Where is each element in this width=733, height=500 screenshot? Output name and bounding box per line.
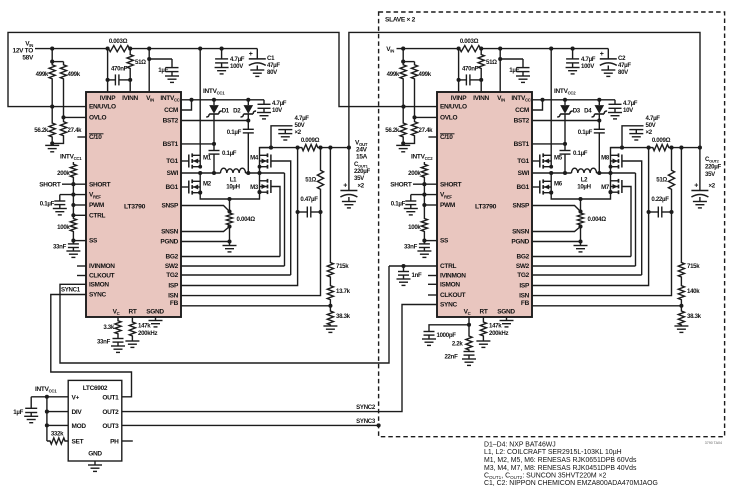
ground 1uF (171, 72, 173, 76)
wire ISN (181, 212, 321, 296)
junction (647, 146, 651, 150)
svg-text:470nF: 470nF (111, 66, 128, 73)
ground divider (45, 144, 59, 146)
wire PGND (532, 241, 581, 243)
ground 1uF (522, 72, 524, 76)
wire BG2 (532, 256, 631, 258)
transistor M7 bottom right (618, 179, 620, 183)
svg-text:LT3790: LT3790 (475, 204, 497, 211)
capacitor COUT1 220uF (348, 148, 350, 191)
svg-text:1µF: 1µF (158, 67, 168, 74)
wire M2 source to sense (200, 193, 229, 200)
junction (347, 146, 351, 150)
wire M4 drain (260, 148, 272, 156)
wire SWI (532, 172, 572, 174)
svg-text:35V: 35V (705, 171, 716, 178)
svg-text:CLKOUT: CLKOUT (440, 292, 466, 299)
svg-text:M8: M8 (601, 155, 610, 162)
svg-text:38.3k: 38.3k (687, 313, 702, 320)
wire ISMON to slave CTRL (60, 266, 389, 363)
svg-text:SS: SS (440, 238, 449, 245)
svg-text:ISP: ISP (519, 283, 530, 290)
svg-text:51Ω: 51Ω (486, 59, 497, 66)
wire M3 source to sense (581, 192, 611, 199)
svg-text:47µF: 47µF (618, 62, 631, 69)
ground 4.7uF 50V (284, 130, 286, 134)
svg-text:×2: ×2 (646, 129, 653, 136)
resistor 200k (70, 162, 76, 184)
capacitor 1nF CTRL (403, 266, 405, 272)
wire BST2 (532, 120, 599, 122)
wire SYNC3 net (122, 424, 379, 426)
svg-text:OUT3: OUT3 (102, 423, 119, 430)
svg-text:D4: D4 (584, 108, 592, 115)
wire SW2 to pin (284, 173, 286, 266)
svg-text:C1: C1 (267, 55, 275, 62)
wire SW2 node (597, 172, 636, 174)
wire CCM tie (532, 100, 543, 110)
svg-text:0.1µF: 0.1µF (391, 201, 406, 208)
slave x2 dashed boundary box (379, 12, 725, 437)
diode D3 (563, 98, 567, 102)
svg-text:220µF: 220µF (705, 164, 721, 171)
svg-text:58V: 58V (22, 55, 34, 62)
capacitor 1uF (500, 58, 523, 60)
svg-text:4.7µF: 4.7µF (646, 115, 661, 122)
svg-text:0.1µF: 0.1µF (222, 150, 237, 157)
wire M1 drain from VIN (550, 49, 552, 156)
svg-text:SHORT: SHORT (390, 182, 412, 189)
svg-text:0.003Ω: 0.003Ω (460, 38, 479, 45)
svg-text:MOD: MOD (72, 423, 87, 430)
wire D1 cathode to BST1 (564, 117, 566, 151)
wire M4 source (259, 167, 261, 174)
transistor M2 bottom left (191, 179, 193, 183)
svg-text:SYNC: SYNC (440, 302, 457, 309)
capacitor 1uF LTC (30, 397, 32, 409)
svg-text:3790 TA04: 3790 TA04 (705, 441, 722, 445)
svg-text:ISN: ISN (168, 293, 179, 300)
junction (198, 47, 202, 51)
svg-text:+: + (600, 51, 604, 58)
wire M4 drain (611, 148, 623, 156)
resistor 13.7k (327, 278, 333, 302)
wire VC (117, 317, 119, 320)
junction (318, 146, 322, 150)
capacitor COUT2 220uF (699, 148, 701, 191)
junction (479, 47, 483, 51)
svg-text:220µF: 220µF (354, 168, 370, 175)
svg-text:SW2: SW2 (516, 263, 530, 270)
wire ISN (532, 212, 672, 296)
svg-text:BG2: BG2 (166, 254, 179, 261)
wire VREF (411, 194, 437, 196)
svg-text:M4: M4 (250, 155, 259, 162)
svg-text:56.2k: 56.2k (34, 127, 49, 134)
svg-text:FB: FB (521, 300, 530, 307)
wire EN/UVLO master loop to slave (8, 32, 437, 106)
wire VIN rail right (137, 48, 257, 50)
svg-text:SET: SET (72, 439, 84, 446)
capacitor 0.1uF VREF (410, 195, 412, 201)
node sense top (578, 197, 582, 201)
junction (679, 146, 683, 150)
wire BG1 gate (532, 186, 539, 188)
svg-text:M5: M5 (554, 155, 563, 162)
svg-text:D1: D1 (222, 108, 230, 115)
capacitor 0.1uF BST1 (209, 150, 220, 152)
wire BG1 gate (181, 186, 188, 188)
wire M4 gate to TG2 (622, 161, 641, 275)
junction (549, 47, 553, 51)
op-amp U3 LTC6902 oscillator (68, 380, 122, 461)
svg-text:47µF: 47µF (267, 62, 280, 69)
ground COUT1 (348, 197, 350, 202)
svg-text:1000pF: 1000pF (437, 332, 457, 339)
resistor 56.2k (49, 107, 55, 144)
svg-text:SYNC: SYNC (89, 292, 106, 299)
svg-text:4.7µF: 4.7µF (230, 56, 245, 63)
svg-text:51Ω: 51Ω (656, 177, 667, 184)
ground 33nF (423, 248, 425, 252)
svg-text:51Ω: 51Ω (305, 177, 316, 184)
resistor 51ohm input (127, 49, 133, 80)
capacitor 4.7uF 50V x2 (622, 126, 644, 148)
svg-text:BST2: BST2 (163, 118, 179, 125)
pin stubs IVINMON ISMON CLKOUT (428, 275, 437, 277)
svg-text:CCM: CCM (515, 107, 529, 114)
resistor 38.3k (678, 310, 684, 326)
svg-text:38.3k: 38.3k (336, 313, 351, 320)
junction (669, 146, 673, 150)
resistor 332k (47, 438, 68, 444)
resistor 499k (2) (411, 62, 417, 118)
svg-text:0.1µF: 0.1µF (573, 150, 588, 157)
ground VC (117, 342, 119, 346)
wire SWI (181, 172, 221, 174)
wire TG2 (532, 274, 642, 276)
transistor M4 top right (267, 153, 269, 157)
wire FB (181, 305, 330, 307)
svg-text:50V: 50V (295, 122, 306, 129)
wire VIN rail (35, 48, 101, 50)
junction EN/UVLO slave divider (401, 105, 405, 109)
wire PGND (181, 241, 230, 243)
capacitor 0.1uF BST2 (243, 128, 254, 130)
wire M3 drain (610, 173, 612, 181)
svg-text:33nF: 33nF (97, 339, 111, 346)
transistor M1 top left (191, 153, 193, 157)
wire BG2 (181, 256, 280, 258)
svg-text:OVLO: OVLO (89, 115, 106, 122)
transistor M6 bottom left (542, 179, 544, 183)
wire D1 cathode to BST1 (213, 117, 215, 151)
svg-text:SNSN: SNSN (161, 229, 178, 236)
svg-text:M6: M6 (554, 181, 563, 188)
wire OVLO (415, 116, 438, 118)
junction (457, 47, 461, 51)
junction (147, 47, 151, 51)
op-amp U1 LT3790 controller IC (86, 92, 181, 317)
ground 1uF LTC (30, 413, 32, 417)
svg-text:M3, M4, M7, M8: RENESAS RJK045: M3, M4, M7, M8: RENESAS RJK0451DPB 40Vds (484, 465, 637, 472)
svg-text:ISMON: ISMON (89, 281, 109, 288)
svg-text:PH: PH (110, 439, 119, 446)
svg-text:C1, C2: NIPPON CHEMICON EMZA80: C1, C2: NIPPON CHEMICON EMZA800ADA470MJA… (484, 480, 658, 487)
resistor 100k (421, 218, 427, 237)
wire SW2 to pin (635, 173, 637, 266)
resistor 3.3k (115, 320, 121, 335)
resistor 499k (1) (400, 62, 406, 107)
wire INTVCC (181, 99, 264, 101)
svg-text:PWM: PWM (440, 202, 455, 209)
capacitor 470nF (459, 79, 467, 81)
ground LTC GND (94, 461, 96, 465)
pin stubs IVINMON CLKOUT ISMON (77, 265, 86, 267)
diode D4 (597, 98, 601, 102)
pin stub PH (122, 440, 133, 442)
resistor 147k RT (480, 317, 486, 341)
svg-text:BG2: BG2 (517, 254, 530, 261)
svg-text:OUT2: OUT2 (102, 409, 119, 416)
resistor 51ohm output (668, 148, 674, 212)
svg-text:OUT1: OUT1 (102, 394, 119, 401)
svg-text:27.4k: 27.4k (68, 127, 83, 134)
resistor 56.2k (400, 107, 406, 144)
svg-text:1µF: 1µF (509, 67, 519, 74)
svg-text:0.009Ω: 0.009Ω (301, 137, 320, 144)
svg-text:RT: RT (479, 309, 487, 316)
svg-text:+: + (694, 183, 698, 190)
svg-text:IVINMON: IVINMON (440, 273, 466, 280)
wire SS (72, 237, 74, 241)
svg-text:200kHz: 200kHz (138, 330, 157, 337)
svg-text:CTRL: CTRL (89, 212, 105, 219)
wire CTRL (73, 214, 86, 216)
wire M2 drain to SWI (550, 173, 552, 182)
svg-text:4.7µF: 4.7µF (272, 100, 287, 107)
svg-text:10V: 10V (272, 107, 283, 114)
svg-text:51Ω: 51Ω (135, 59, 146, 66)
junction (220, 47, 224, 51)
ground 38.3k (674, 325, 688, 327)
resistor 51ohm input (478, 49, 484, 80)
svg-text:EN/UVLO: EN/UVLO (440, 104, 467, 111)
wire M3 gate to BG2 (271, 187, 280, 257)
svg-text:10µH: 10µH (577, 184, 591, 191)
wire M1 drain from VIN (199, 49, 201, 156)
wire ISP (532, 148, 649, 286)
svg-text:4.7µF: 4.7µF (623, 100, 638, 107)
wire PWM (424, 204, 437, 206)
wire SYNC2 net (122, 305, 437, 412)
ground 38.3k (323, 325, 337, 327)
resistor 2.2k (466, 325, 472, 351)
svg-text:M3: M3 (250, 184, 259, 191)
wire SHORT (413, 183, 437, 185)
resistor 0.003ohm input sense (101, 46, 137, 52)
wire TG1 gate (532, 160, 539, 162)
junction SYNC3 on slave boundary (377, 423, 381, 427)
junction (328, 146, 332, 150)
junction (128, 47, 132, 51)
svg-text:332k: 332k (51, 431, 64, 438)
capacitor C1 47uF 80V (256, 49, 258, 59)
svg-text:22nF: 22nF (444, 354, 458, 361)
diode D2 (246, 98, 250, 102)
svg-text:50V: 50V (646, 122, 657, 129)
wire IVINN (480, 80, 482, 92)
wire SW2 node (246, 172, 285, 174)
svg-text:IVINMON: IVINMON (89, 263, 115, 270)
capacitor 4.7uF 100V (221, 49, 223, 59)
svg-text:SNSP: SNSP (512, 203, 529, 210)
wire divider bottom (52, 140, 63, 143)
svg-text:BG1: BG1 (517, 184, 530, 191)
wire M2 source to sense (551, 193, 580, 200)
capacitor 470nF (108, 79, 116, 81)
svg-text:SHORT: SHORT (440, 181, 462, 188)
svg-text:C2: C2 (618, 55, 626, 62)
svg-text:0.1µF: 0.1µF (578, 129, 593, 136)
svg-text:SNSN: SNSN (512, 229, 529, 236)
wire M4 source (610, 167, 612, 174)
svg-text:200kHz: 200kHz (489, 330, 508, 337)
svg-text:M2: M2 (203, 181, 212, 188)
resistor 140k (678, 278, 684, 302)
resistor 200k (421, 162, 427, 184)
junction (620, 146, 624, 150)
pin C/10 stub (77, 136, 86, 138)
svg-text:10V: 10V (623, 107, 634, 114)
svg-text:100k: 100k (408, 224, 421, 231)
wire output node right (319, 147, 349, 149)
svg-text:PWM: PWM (89, 202, 104, 209)
capacitor 33nF VC (117, 335, 119, 339)
svg-text:BST2: BST2 (514, 118, 530, 125)
wire VREF (60, 194, 86, 196)
junction (498, 47, 502, 51)
junction (571, 47, 575, 51)
svg-text:+: + (343, 183, 347, 190)
svg-text:0.22µF: 0.22µF (651, 196, 669, 203)
svg-text:715k: 715k (687, 263, 700, 270)
junction (269, 146, 273, 150)
wire D2 cathode to BST2 (247, 117, 249, 130)
svg-text:0.47µF: 0.47µF (300, 196, 318, 203)
node sense top (227, 197, 231, 201)
wire VIN rail right (488, 48, 608, 50)
wire ISP (181, 148, 298, 286)
svg-text:×2: ×2 (358, 183, 365, 190)
svg-text:COUT1, COUT2: SUNCON 35HVT220M: COUT1, COUT2: SUNCON 35HVT220M ×2 (484, 473, 607, 481)
wire divider bottom (403, 140, 414, 143)
svg-text:147k: 147k (489, 323, 502, 330)
svg-text:DIV: DIV (72, 409, 83, 416)
wire output node (611, 147, 653, 149)
svg-text:0.003Ω: 0.003Ω (109, 38, 128, 45)
svg-text:33nF: 33nF (404, 244, 418, 251)
wire SNSN (181, 227, 230, 232)
wire TG1 gate (181, 160, 188, 162)
svg-text:12V TO: 12V TO (13, 48, 34, 55)
ground 1nF (403, 275, 405, 279)
resistor 0.004ohm (580, 199, 582, 212)
svg-text:147k: 147k (138, 323, 151, 330)
capacitor 0.47µF (298, 211, 308, 213)
svg-text:1nF: 1nF (412, 272, 423, 279)
svg-text:+: + (249, 51, 253, 58)
ground 22nF (468, 355, 470, 359)
svg-text:0.004Ω: 0.004Ω (237, 216, 256, 223)
resistor 715k (680, 148, 682, 262)
transistor M3 bottom right (267, 179, 269, 183)
wire BST1 (532, 143, 565, 145)
resistor 27.4k (60, 117, 66, 140)
svg-text:1µF: 1µF (13, 409, 23, 416)
svg-text:80V: 80V (618, 69, 629, 76)
wire DIV MOD tie (46, 397, 48, 441)
svg-text:0.009Ω: 0.009Ω (652, 137, 671, 144)
wire SHORT (62, 183, 86, 185)
svg-text:4.7µF: 4.7µF (295, 115, 310, 122)
ground RT (476, 340, 490, 342)
wire SYNC1 net (51, 295, 132, 397)
svg-text:SW2: SW2 (165, 263, 179, 270)
capacitor C2 47uF 80V (607, 49, 609, 59)
svg-text:CLKOUT: CLKOUT (89, 273, 115, 280)
inductor L2 10uH (572, 168, 597, 173)
svg-text:SLAVE × 2: SLAVE × 2 (385, 17, 416, 24)
capacitor 0.1uF VREF (59, 195, 61, 201)
svg-text:15A: 15A (356, 154, 368, 161)
svg-text:OVLO: OVLO (440, 115, 457, 122)
svg-text:FB: FB (170, 300, 179, 307)
wire OVLO (64, 116, 87, 118)
ground power (574, 245, 588, 247)
svg-text:SS: SS (89, 238, 98, 245)
svg-text:IVINN: IVINN (473, 95, 489, 102)
svg-text:BG1: BG1 (166, 184, 179, 191)
junction EN/UVLO master divider (50, 105, 54, 109)
capacitor 33nF SS (72, 241, 74, 244)
resistor 147k RT (129, 317, 135, 341)
svg-text:SHORT: SHORT (89, 181, 111, 188)
wire CTRL slave (389, 265, 437, 267)
ground 4.7uF 100V (221, 63, 223, 68)
svg-text:IVINN: IVINN (122, 95, 138, 102)
wire PWM (73, 204, 86, 206)
svg-text:715k: 715k (336, 263, 349, 270)
wire FB (532, 305, 681, 307)
svg-text:100V: 100V (230, 63, 244, 70)
svg-text:0.1µF: 0.1µF (227, 129, 242, 136)
svg-text:SYNC1: SYNC1 (61, 287, 81, 294)
capacitor 4.7uF 50V x2 (271, 126, 293, 148)
wire IVINP (107, 49, 109, 92)
capacitor 0.1uF BST2 (594, 128, 605, 130)
resistor 715k (329, 148, 331, 262)
ground 4.7uF 10V (257, 112, 271, 114)
svg-text:LTC6902: LTC6902 (83, 385, 108, 392)
wire SNSP (532, 206, 581, 212)
capacitor 0.1uF BST1 (560, 150, 571, 152)
capacitor 4.7uF 10V (263, 100, 265, 105)
wire divider top (51, 49, 53, 62)
svg-text:TG1: TG1 (517, 158, 529, 165)
svg-text:24V: 24V (356, 147, 368, 154)
ground 1000pF (428, 335, 430, 339)
